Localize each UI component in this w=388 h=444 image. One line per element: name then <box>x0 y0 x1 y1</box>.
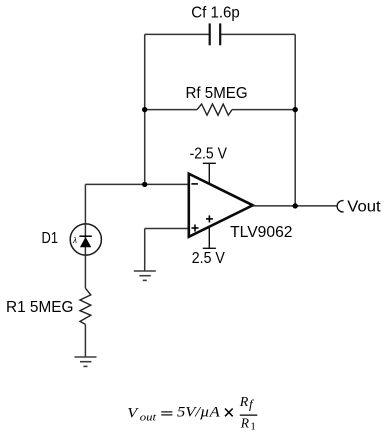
minus label inverting input <box>191 183 198 185</box>
wire output <box>253 205 337 207</box>
photodiode arrow triangle <box>80 237 91 247</box>
op-amp U1 TLV9062 triangle <box>189 174 253 237</box>
pin negative supply (top) <box>203 163 216 185</box>
wire inverting input <box>85 183 189 185</box>
wire noninverting to ground <box>144 229 146 272</box>
photodiode cathode bar <box>79 235 91 237</box>
svg-text:λ: λ <box>72 236 77 245</box>
wire top-left feedback to capacitor <box>145 33 210 35</box>
svg-text:Cf 1.6p: Cf 1.6p <box>191 4 240 21</box>
pin positive supply (bottom) <box>203 226 216 248</box>
node junction left rail / inverting input <box>142 182 147 187</box>
wire through photodiode <box>84 224 86 288</box>
svg-text:Vout: Vout <box>347 198 381 215</box>
svg-text:2.5 V: 2.5 V <box>192 250 225 267</box>
svg-text:out: out <box>140 413 158 424</box>
svg-text:V: V <box>127 405 139 421</box>
svg-text:R: R <box>240 416 250 431</box>
wire Rf right <box>232 109 295 111</box>
wire noninverting input <box>145 228 189 230</box>
resistor R1 zigzag <box>80 288 91 324</box>
wire right feedback rail <box>294 34 296 206</box>
node junction output / right rail <box>293 203 298 208</box>
svg-text:R1 5MEG: R1 5MEG <box>6 299 74 316</box>
wire R1 to ground <box>84 324 86 357</box>
formula Vout = 5V/uA x Rf/R1 <box>127 395 257 432</box>
node junction left rail / Rf <box>142 107 147 112</box>
plus label positive supply <box>206 215 213 222</box>
ground (R1) <box>75 357 97 366</box>
resistor Rf zigzag <box>197 104 232 115</box>
Vout port symbol <box>337 201 343 212</box>
wire left feedback rail <box>144 34 146 184</box>
node junction right rail / Rf <box>293 107 298 112</box>
ground (noninverting input) <box>134 271 156 280</box>
svg-text:1: 1 <box>250 420 256 432</box>
svg-text:Rf 5MEG: Rf 5MEG <box>186 85 248 102</box>
wire capacitor to top-right <box>220 33 295 35</box>
svg-text:f: f <box>249 397 255 412</box>
svg-text:TLV9062: TLV9062 <box>230 224 292 241</box>
svg-text:5V/µA: 5V/µA <box>177 404 221 420</box>
photodiode D1 circle <box>70 224 101 255</box>
wire D1 branch top <box>84 184 86 224</box>
wire Rf left <box>145 109 197 111</box>
svg-text:D1: D1 <box>42 230 59 247</box>
svg-text:R: R <box>239 395 249 410</box>
plus label noninverting input <box>192 225 199 232</box>
svg-text:-2.5 V: -2.5 V <box>190 146 228 163</box>
capacitor Cf <box>210 23 221 45</box>
